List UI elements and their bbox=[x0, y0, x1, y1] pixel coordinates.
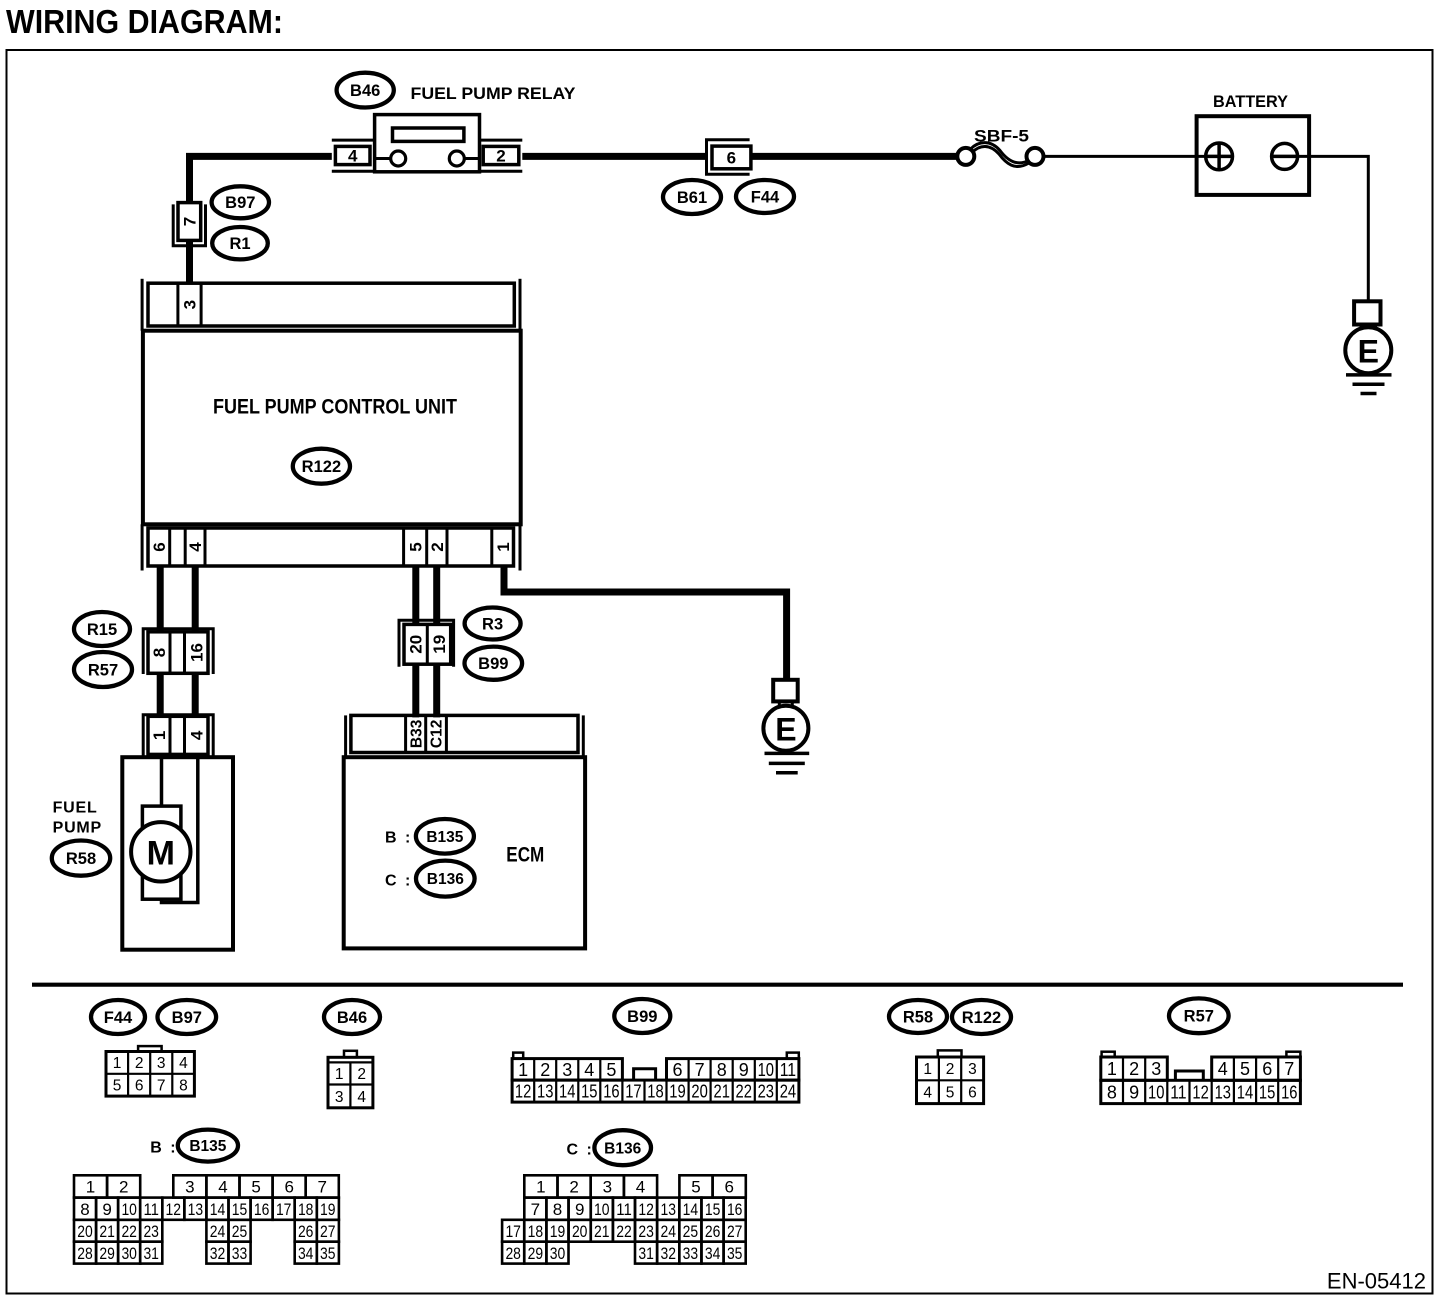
oval R122 (bottom) bbox=[952, 1000, 1011, 1034]
oval R3 bbox=[465, 608, 521, 640]
svg-text:14: 14 bbox=[210, 1200, 226, 1219]
oval B136 (ECM) bbox=[416, 861, 475, 897]
svg-text:25: 25 bbox=[232, 1222, 248, 1241]
connector pin 7 (B97/R1) bbox=[173, 203, 205, 246]
svg-text:33: 33 bbox=[683, 1244, 699, 1263]
svg-text:ECM: ECM bbox=[506, 844, 544, 867]
svg-text:19: 19 bbox=[320, 1200, 336, 1219]
svg-text:2: 2 bbox=[357, 1066, 366, 1083]
svg-text:25: 25 bbox=[683, 1222, 699, 1241]
svg-text:2: 2 bbox=[496, 147, 505, 166]
battery bbox=[1197, 92, 1310, 195]
svg-text:8: 8 bbox=[179, 1078, 188, 1095]
svg-text:B46: B46 bbox=[337, 1009, 367, 1027]
relay body B46 bbox=[375, 115, 480, 172]
svg-text:13: 13 bbox=[661, 1200, 677, 1219]
svg-text:29: 29 bbox=[528, 1244, 544, 1263]
svg-text:4: 4 bbox=[636, 1178, 645, 1197]
wire: fuel pump internal pin4 to motor bbox=[162, 754, 198, 902]
svg-text:C12: C12 bbox=[429, 720, 446, 748]
svg-text:3: 3 bbox=[185, 1178, 194, 1197]
svg-text:24: 24 bbox=[661, 1222, 677, 1241]
svg-text:B99: B99 bbox=[478, 655, 508, 673]
svg-text:22: 22 bbox=[121, 1222, 137, 1241]
svg-text:22: 22 bbox=[616, 1222, 632, 1241]
svg-text:B46: B46 bbox=[350, 82, 380, 100]
svg-text:7: 7 bbox=[531, 1200, 540, 1219]
svg-text:1: 1 bbox=[113, 1055, 122, 1072]
wire: fuel pump internal pin1 to motor bbox=[160, 754, 164, 806]
svg-text:R15: R15 bbox=[87, 621, 117, 639]
svg-text:1: 1 bbox=[150, 731, 169, 740]
svg-text:R57: R57 bbox=[88, 661, 118, 679]
svg-text:27: 27 bbox=[320, 1222, 336, 1241]
wire: fuse SBF-5 to battery bbox=[1044, 155, 1207, 158]
svg-text:B97: B97 bbox=[225, 194, 255, 212]
svg-text:16: 16 bbox=[1281, 1082, 1297, 1102]
ECM connector strip B33/C12 bbox=[346, 715, 584, 757]
fuse SBF-5 bbox=[957, 126, 1043, 166]
svg-text:7: 7 bbox=[317, 1178, 326, 1197]
svg-text:12: 12 bbox=[166, 1200, 182, 1219]
svg-text:34: 34 bbox=[705, 1244, 721, 1263]
svg-text:16: 16 bbox=[727, 1200, 743, 1219]
svg-text:4: 4 bbox=[179, 1055, 188, 1072]
svg-text:17: 17 bbox=[276, 1200, 292, 1219]
oval R57 bbox=[74, 652, 132, 687]
oval R58 bbox=[52, 841, 110, 876]
svg-text:31: 31 bbox=[638, 1244, 654, 1263]
svg-text:14: 14 bbox=[683, 1200, 699, 1219]
svg-text:F44: F44 bbox=[104, 1009, 133, 1027]
svg-text:5: 5 bbox=[251, 1178, 260, 1197]
svg-text:5: 5 bbox=[946, 1085, 955, 1102]
svg-text:4: 4 bbox=[186, 542, 205, 552]
fuel pump box with motor M bbox=[122, 757, 233, 950]
svg-text:6: 6 bbox=[135, 1078, 144, 1095]
svg-text:10: 10 bbox=[1148, 1082, 1164, 1102]
oval B136 (bottom) bbox=[594, 1130, 651, 1165]
svg-text:10: 10 bbox=[121, 1200, 137, 1219]
oval R1 bbox=[212, 227, 268, 259]
svg-text:28: 28 bbox=[505, 1244, 521, 1263]
svg-text:31: 31 bbox=[143, 1244, 159, 1263]
svg-text:B136: B136 bbox=[604, 1140, 641, 1157]
svg-text:F44: F44 bbox=[751, 188, 780, 206]
svg-text:34: 34 bbox=[298, 1244, 314, 1263]
oval B135 (bottom) bbox=[178, 1130, 238, 1162]
svg-text:33: 33 bbox=[232, 1244, 248, 1263]
svg-text:R58: R58 bbox=[903, 1008, 933, 1026]
svg-text:7: 7 bbox=[180, 217, 199, 226]
svg-text:11: 11 bbox=[143, 1200, 159, 1219]
svg-text:14: 14 bbox=[1237, 1082, 1253, 1102]
svg-text:8: 8 bbox=[150, 648, 169, 657]
svg-text:R122: R122 bbox=[962, 1009, 1001, 1027]
svg-text:4: 4 bbox=[348, 147, 358, 166]
svg-text:1: 1 bbox=[494, 542, 513, 551]
svg-text:3: 3 bbox=[157, 1055, 166, 1072]
svg-text:24: 24 bbox=[210, 1222, 226, 1241]
svg-text:6: 6 bbox=[1262, 1059, 1272, 1079]
fuel pump control unit box R122 bbox=[143, 331, 521, 525]
svg-text:30: 30 bbox=[550, 1244, 566, 1263]
svg-text:R57: R57 bbox=[1184, 1008, 1214, 1026]
connector pin grid B135 bbox=[74, 1175, 339, 1263]
connector pins 8/16 (R15/R57) bbox=[143, 629, 213, 674]
svg-text:3: 3 bbox=[335, 1089, 344, 1106]
svg-text:20: 20 bbox=[407, 635, 426, 654]
svg-text:4: 4 bbox=[187, 730, 206, 740]
oval B46 bbox=[337, 73, 394, 108]
svg-text:13: 13 bbox=[537, 1082, 553, 1102]
svg-text:28: 28 bbox=[77, 1244, 93, 1263]
svg-text:16: 16 bbox=[187, 643, 206, 662]
svg-text:10: 10 bbox=[594, 1200, 610, 1219]
svg-text:8: 8 bbox=[553, 1200, 562, 1219]
oval R57 (bottom) bbox=[1169, 998, 1229, 1033]
svg-text:11: 11 bbox=[1170, 1082, 1186, 1102]
svg-text:B136: B136 bbox=[427, 871, 464, 888]
svg-text:35: 35 bbox=[727, 1244, 743, 1263]
wire: relay pin 4 to connector 7 (B97/R1) bbox=[190, 156, 332, 202]
svg-text:4: 4 bbox=[218, 1178, 227, 1197]
svg-text:13: 13 bbox=[188, 1200, 204, 1219]
svg-text:6: 6 bbox=[968, 1085, 977, 1102]
separator line bbox=[32, 983, 1403, 987]
svg-text:4: 4 bbox=[1218, 1059, 1228, 1079]
wire: connector 7 to FPCU pin 3 bbox=[186, 240, 193, 283]
svg-text:8: 8 bbox=[80, 1200, 89, 1219]
svg-text:22: 22 bbox=[736, 1082, 752, 1102]
svg-text:WIRING DIAGRAM:: WIRING DIAGRAM: bbox=[6, 3, 283, 40]
svg-text:4: 4 bbox=[357, 1089, 366, 1106]
svg-text:29: 29 bbox=[99, 1244, 115, 1263]
svg-text:8: 8 bbox=[717, 1060, 727, 1080]
connector pin grid B136 bbox=[502, 1175, 746, 1263]
svg-text:24: 24 bbox=[780, 1082, 796, 1102]
svg-text:9: 9 bbox=[1129, 1082, 1139, 1102]
wire: FPCU pin 1 to ground E bbox=[504, 566, 787, 680]
svg-text:3: 3 bbox=[968, 1061, 977, 1078]
svg-text:18: 18 bbox=[647, 1082, 663, 1102]
svg-text:12: 12 bbox=[1192, 1082, 1208, 1102]
svg-text:4: 4 bbox=[584, 1060, 594, 1080]
wire: connector pin 19 to ECM C12 bbox=[433, 664, 440, 717]
connector pin 6 (B61/F44) bbox=[707, 140, 751, 175]
svg-text:32: 32 bbox=[661, 1244, 677, 1263]
wire: connector pin 20 to ECM B33 bbox=[412, 664, 419, 717]
svg-text:6: 6 bbox=[150, 542, 169, 551]
svg-text:B135: B135 bbox=[426, 829, 463, 846]
svg-text:6: 6 bbox=[672, 1060, 682, 1080]
svg-text:26: 26 bbox=[298, 1222, 314, 1241]
svg-text:5: 5 bbox=[606, 1060, 616, 1080]
svg-text:B99: B99 bbox=[627, 1008, 657, 1026]
wire: FPCU pin 5 to connector pin 20 bbox=[412, 566, 419, 624]
svg-text:18: 18 bbox=[298, 1200, 314, 1219]
svg-text:2: 2 bbox=[428, 542, 447, 551]
svg-text:23: 23 bbox=[758, 1082, 774, 1102]
svg-text:23: 23 bbox=[143, 1222, 159, 1241]
oval B46 (bottom) bbox=[324, 1000, 380, 1034]
wire: relay pin 2 to connector 6 (B61/F44) bbox=[522, 153, 706, 160]
svg-text:18: 18 bbox=[528, 1222, 544, 1241]
svg-text:PUMP: PUMP bbox=[53, 819, 102, 836]
svg-text:FUEL PUMP RELAY: FUEL PUMP RELAY bbox=[411, 84, 577, 103]
svg-text:21: 21 bbox=[714, 1082, 730, 1102]
svg-text:16: 16 bbox=[254, 1200, 270, 1219]
wire: connector pin 16 to pin 4 bbox=[192, 673, 199, 716]
svg-text:23: 23 bbox=[638, 1222, 654, 1241]
svg-text:15: 15 bbox=[232, 1200, 248, 1219]
svg-text:6: 6 bbox=[284, 1178, 293, 1197]
svg-text:11: 11 bbox=[780, 1060, 796, 1080]
relay connector pin 2 bbox=[480, 140, 523, 171]
svg-text:4: 4 bbox=[923, 1085, 932, 1102]
svg-text:17: 17 bbox=[505, 1222, 521, 1241]
svg-text:7: 7 bbox=[157, 1078, 166, 1095]
oval B135 (ECM) bbox=[416, 819, 474, 854]
svg-text:B97: B97 bbox=[172, 1009, 202, 1027]
svg-text:R122: R122 bbox=[302, 458, 341, 476]
svg-text:5: 5 bbox=[691, 1178, 700, 1197]
svg-text:1: 1 bbox=[923, 1061, 932, 1078]
svg-text:7: 7 bbox=[695, 1060, 705, 1080]
oval F44 bbox=[736, 180, 794, 213]
svg-text:C :: C : bbox=[567, 1142, 594, 1159]
svg-text:3: 3 bbox=[562, 1060, 572, 1080]
svg-text:1: 1 bbox=[518, 1060, 528, 1080]
svg-text:1: 1 bbox=[536, 1178, 545, 1197]
svg-text:21: 21 bbox=[99, 1222, 115, 1241]
svg-text:12: 12 bbox=[638, 1200, 654, 1219]
svg-text:12: 12 bbox=[515, 1082, 531, 1102]
FPCU top connector strip with pin 3 bbox=[142, 279, 520, 331]
svg-text:EN-05412: EN-05412 bbox=[1327, 1268, 1426, 1293]
svg-text:B :: B : bbox=[150, 1139, 177, 1156]
oval F44 (bottom) bbox=[91, 1000, 145, 1034]
FPCU bottom connector strip pins 6 4 5 2 1 bbox=[142, 524, 520, 570]
svg-text:9: 9 bbox=[575, 1200, 584, 1219]
svg-text:17: 17 bbox=[625, 1082, 641, 1102]
svg-text:R1: R1 bbox=[229, 235, 250, 253]
svg-text:BATTERY: BATTERY bbox=[1213, 92, 1289, 111]
connector pin grid B99 bbox=[512, 1053, 799, 1103]
oval B99 bbox=[465, 647, 523, 680]
svg-text:19: 19 bbox=[550, 1222, 566, 1241]
battery positive terminal bbox=[1206, 143, 1233, 170]
ground E (battery) bbox=[1345, 301, 1391, 393]
oval R15 bbox=[74, 612, 130, 646]
oval B97 (bottom) bbox=[158, 1000, 217, 1034]
svg-text:2: 2 bbox=[540, 1060, 550, 1080]
svg-text:3: 3 bbox=[181, 300, 200, 309]
oval B61 bbox=[663, 180, 721, 214]
svg-text:35: 35 bbox=[320, 1244, 336, 1263]
svg-text:20: 20 bbox=[572, 1222, 588, 1241]
svg-text:5: 5 bbox=[113, 1078, 122, 1095]
oval B99 (bottom) bbox=[614, 999, 670, 1033]
svg-text:R58: R58 bbox=[66, 850, 96, 868]
svg-text:32: 32 bbox=[210, 1244, 226, 1263]
svg-text:FUEL PUMP CONTROL UNIT: FUEL PUMP CONTROL UNIT bbox=[213, 396, 457, 419]
svg-text:B61: B61 bbox=[677, 189, 707, 207]
wire: connector 6 to fuse SBF-5 bbox=[751, 153, 959, 160]
wire: battery to ground E bbox=[1298, 156, 1369, 301]
connector pin grid B46 bbox=[328, 1051, 373, 1108]
relay connector pin 4 bbox=[332, 140, 375, 171]
svg-text:1: 1 bbox=[1107, 1059, 1117, 1079]
connector pins 1/4 (fuel pump) bbox=[143, 715, 213, 758]
svg-text:1: 1 bbox=[335, 1066, 344, 1083]
svg-text:2: 2 bbox=[569, 1178, 578, 1197]
svg-text:E: E bbox=[775, 712, 796, 748]
svg-text:3: 3 bbox=[603, 1178, 612, 1197]
connector pin grid R58/R122 bbox=[917, 1050, 984, 1103]
svg-text:2: 2 bbox=[1129, 1059, 1139, 1079]
svg-text:20: 20 bbox=[77, 1222, 93, 1241]
svg-text:2: 2 bbox=[946, 1061, 955, 1078]
ground E (FPCU pin 1) bbox=[763, 680, 809, 773]
svg-text:M: M bbox=[147, 835, 175, 873]
svg-text:B135: B135 bbox=[189, 1138, 226, 1155]
svg-text:30: 30 bbox=[121, 1244, 137, 1263]
svg-text:9: 9 bbox=[739, 1060, 749, 1080]
svg-text:E: E bbox=[1358, 334, 1379, 370]
svg-text:2: 2 bbox=[119, 1178, 128, 1197]
svg-text:6: 6 bbox=[724, 1178, 733, 1197]
svg-text:10: 10 bbox=[758, 1060, 774, 1080]
svg-text:8: 8 bbox=[1107, 1082, 1117, 1102]
svg-text:2: 2 bbox=[135, 1055, 144, 1072]
svg-text:6: 6 bbox=[727, 149, 736, 168]
svg-text:5: 5 bbox=[406, 542, 425, 551]
svg-text:15: 15 bbox=[705, 1200, 721, 1219]
svg-text:7: 7 bbox=[1284, 1059, 1294, 1079]
svg-text:15: 15 bbox=[581, 1082, 597, 1102]
svg-text:9: 9 bbox=[102, 1200, 111, 1219]
svg-text:R3: R3 bbox=[482, 615, 503, 633]
oval R122 bbox=[293, 449, 350, 484]
oval B97 bbox=[212, 186, 269, 218]
svg-text:3: 3 bbox=[1151, 1059, 1161, 1079]
svg-text:26: 26 bbox=[705, 1222, 721, 1241]
svg-text:1: 1 bbox=[86, 1178, 95, 1197]
svg-text:14: 14 bbox=[559, 1082, 575, 1102]
wire: connector pin 8 to pin 1 bbox=[157, 673, 164, 716]
oval R58 (bottom) bbox=[889, 1000, 947, 1033]
connector pins 20/19 (R3/B99) bbox=[399, 620, 454, 667]
svg-text:27: 27 bbox=[727, 1222, 743, 1241]
svg-text:20: 20 bbox=[691, 1082, 707, 1102]
wire: FPCU pin 6 to connector pin 8 bbox=[157, 566, 164, 632]
wire: FPCU pin 4 to connector pin 16 bbox=[192, 566, 199, 632]
svg-text:FUEL: FUEL bbox=[53, 800, 98, 817]
ECM box bbox=[344, 757, 585, 948]
svg-text:13: 13 bbox=[1215, 1082, 1231, 1102]
wire: FPCU pin 2 to connector pin 19 bbox=[433, 566, 440, 624]
svg-text:21: 21 bbox=[594, 1222, 610, 1241]
battery negative terminal bbox=[1272, 143, 1298, 169]
svg-text:19: 19 bbox=[430, 635, 449, 654]
connector pin grid F44/B97 bbox=[106, 1046, 194, 1096]
svg-text:B33: B33 bbox=[408, 719, 425, 748]
svg-text:C :: C : bbox=[385, 872, 412, 889]
svg-text:19: 19 bbox=[669, 1082, 685, 1102]
svg-text:5: 5 bbox=[1240, 1059, 1250, 1079]
connector pin grid R57 bbox=[1101, 1052, 1301, 1104]
svg-text:15: 15 bbox=[1259, 1082, 1275, 1102]
svg-text:11: 11 bbox=[616, 1200, 632, 1219]
svg-text:16: 16 bbox=[603, 1082, 619, 1102]
svg-text:B :: B : bbox=[385, 829, 412, 846]
